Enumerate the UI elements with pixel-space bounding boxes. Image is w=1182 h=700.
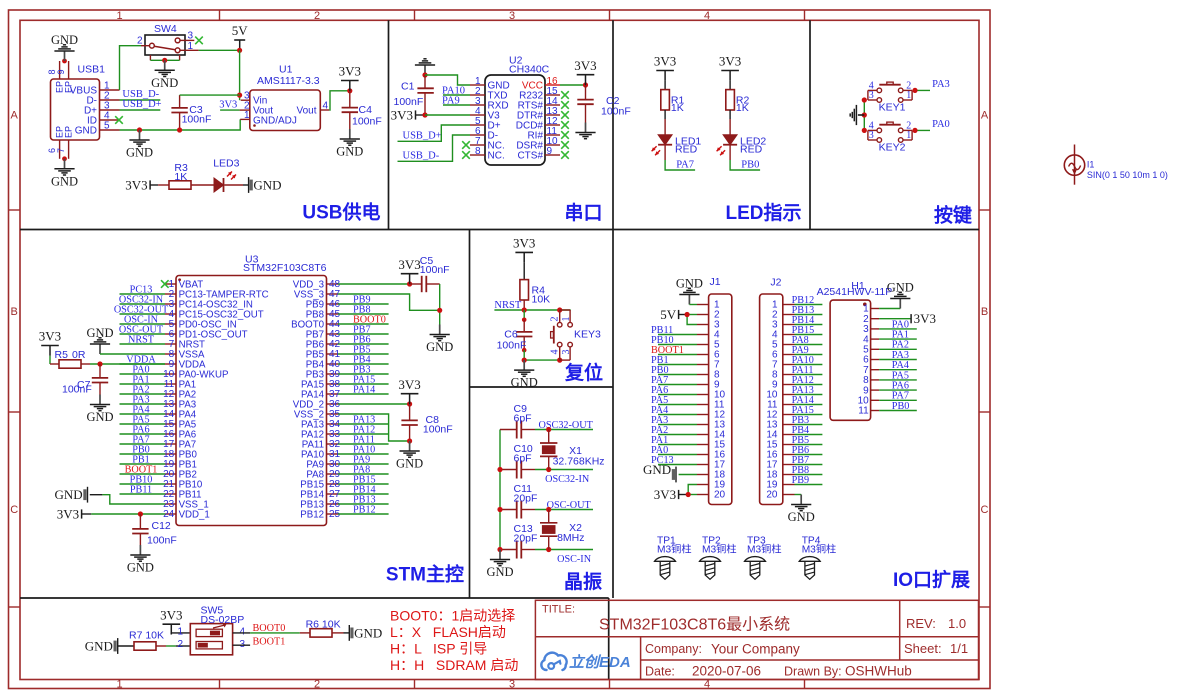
wire H1 pin1 GND	[879, 308, 900, 310]
wire	[120, 413, 166, 415]
wire	[338, 503, 389, 505]
svg-text:6pF: 6pF	[514, 453, 532, 465]
svg-text:SIN(0 1 50 10m 1 0): SIN(0 1 50 10m 1 0)	[1087, 170, 1168, 180]
svg-text:Your Company: Your Company	[711, 642, 800, 657]
svg-text:GND: GND	[676, 276, 703, 290]
net label OSC32-OUT	[539, 420, 594, 431]
ground GND below J2	[788, 495, 815, 525]
svg-text:PB11: PB11	[130, 484, 152, 495]
net label PA15 at J2	[792, 405, 814, 416]
test point TP2 M3铜柱	[700, 536, 737, 580]
svg-text:GND: GND	[51, 33, 78, 47]
wire C1 bottom to U2 V3 pin4	[425, 114, 470, 116]
net label PB9	[353, 294, 371, 305]
wire	[120, 333, 166, 335]
svg-text:5V: 5V	[232, 23, 249, 38]
ground GND below C3	[126, 130, 153, 160]
wire	[795, 304, 823, 306]
net label PB10 at J1	[651, 335, 674, 346]
svg-text:3V3: 3V3	[391, 108, 413, 123]
ground GND above H1	[887, 280, 914, 308]
wire	[120, 463, 166, 465]
svg-text:0R: 0R	[72, 349, 86, 361]
wire crystal row 4	[535, 549, 593, 551]
wire USB_D+ to U2 D+	[398, 125, 471, 141]
net label PB0 at J1	[651, 365, 669, 376]
wire	[338, 383, 389, 385]
svg-text:M3铜柱: M3铜柱	[657, 542, 692, 555]
svg-text:GND: GND	[511, 376, 538, 390]
section label 按键	[934, 204, 972, 227]
net label PA10 at J2	[792, 355, 814, 366]
capacitor C7	[62, 364, 108, 396]
svg-text:1: 1	[116, 10, 122, 22]
frame zone letters right	[981, 110, 989, 517]
net label PB4 at J2	[792, 425, 810, 436]
svg-text:串口: 串口	[564, 202, 602, 224]
svg-text:USB_D+: USB_D+	[122, 99, 161, 110]
title block Date and Drawn By	[645, 664, 912, 679]
svg-text:2: 2	[314, 679, 320, 691]
wire H1 pin2 3V3	[879, 318, 911, 320]
junction	[437, 308, 442, 313]
wire R5 to VDDA	[90, 363, 165, 365]
section label USB供电	[302, 201, 380, 224]
net label VDDA	[126, 354, 156, 365]
net label OSC32-IN	[119, 294, 164, 305]
wire	[120, 313, 166, 315]
svg-text:REV:: REV:	[906, 616, 936, 631]
svg-text:8: 8	[475, 146, 481, 157]
net label PA5 at J1	[651, 395, 668, 406]
junction	[497, 507, 502, 512]
svg-text:J2: J2	[770, 277, 781, 289]
wire J1 pin18 GND	[679, 474, 697, 476]
net label BOOT1	[125, 464, 158, 475]
net label BOOT1 at SW5	[253, 637, 286, 648]
svg-text:4: 4	[323, 100, 329, 111]
wire	[795, 424, 823, 426]
capacitor C11 20pF	[500, 483, 537, 519]
crystal X2 8MHz	[540, 510, 585, 550]
ground GND above C1	[415, 59, 435, 75]
wire	[879, 410, 917, 412]
net label PA9	[353, 454, 370, 465]
junction	[546, 427, 551, 432]
power flag 5V	[232, 23, 249, 50]
push button KEY2	[868, 120, 912, 153]
svg-text:立创EDA: 立创EDA	[569, 653, 631, 671]
svg-text:U1: U1	[279, 64, 293, 76]
svg-text:C12: C12	[152, 520, 171, 532]
junction	[557, 307, 562, 312]
net label PA6 at H1	[892, 381, 909, 392]
svg-text:3V3: 3V3	[398, 377, 420, 392]
svg-text:100nF: 100nF	[62, 384, 92, 396]
wire	[658, 424, 697, 426]
wire	[658, 344, 697, 346]
ground GND below USB1	[51, 159, 78, 189]
svg-text:C: C	[981, 504, 989, 516]
svg-text:USB_D+: USB_D+	[403, 131, 442, 142]
logo 立创EDA	[541, 653, 630, 671]
no-connect X	[195, 37, 203, 45]
svg-text:STM主控: STM主控	[386, 563, 464, 586]
net label PA0 at H1	[892, 319, 909, 330]
wire	[658, 334, 697, 336]
svg-text:GND: GND	[486, 565, 513, 579]
wire	[443, 94, 470, 96]
svg-text:PB0: PB0	[741, 160, 759, 171]
net label PA3	[932, 79, 950, 90]
net label USB_D- at U2	[403, 151, 440, 162]
wire	[658, 434, 697, 436]
svg-text:3: 3	[509, 10, 515, 22]
svg-text:PA7: PA7	[676, 160, 694, 171]
junction	[583, 82, 588, 87]
net label OSC-IN	[124, 314, 159, 325]
svg-text:100nF: 100nF	[420, 264, 450, 276]
svg-text:PA3: PA3	[932, 79, 950, 90]
junction	[237, 48, 242, 53]
wire LED3 to GND	[243, 184, 249, 186]
wire crystal section ground bus	[499, 430, 501, 550]
net label NRST	[494, 300, 521, 311]
wire 3V3 to R3	[150, 184, 158, 186]
svg-text:C1: C1	[401, 81, 415, 93]
svg-text:3V3: 3V3	[574, 58, 596, 73]
resistor R5 0R	[50, 349, 90, 368]
svg-text:100nF: 100nF	[352, 116, 382, 128]
no-connect X	[115, 116, 123, 124]
svg-text:3V3: 3V3	[219, 99, 237, 110]
net label PA0	[132, 364, 149, 375]
net label PB3 at J2	[792, 415, 810, 426]
svg-text:GND: GND	[354, 626, 382, 641]
net label PA7 at J1	[651, 375, 668, 386]
net label PB11	[130, 484, 152, 495]
wire 3V3 to R5	[49, 356, 51, 364]
svg-text:GND: GND	[426, 340, 453, 354]
svg-text:20pF: 20pF	[514, 493, 538, 505]
svg-text:晶振: 晶振	[564, 570, 602, 593]
svg-text:R5: R5	[55, 349, 69, 361]
net label PA3	[132, 394, 149, 405]
title block title STM32F103C8T6最小系统	[599, 616, 790, 634]
svg-text:OSC-OUT: OSC-OUT	[547, 500, 592, 511]
ground GND below C7	[86, 395, 113, 425]
wire U1 pin2 Vout	[220, 109, 240, 111]
wire	[338, 363, 389, 365]
net label PA9 at J2	[792, 345, 809, 356]
wire	[338, 333, 389, 335]
net label PA3 at H1	[892, 350, 909, 361]
wire	[658, 354, 697, 356]
wire	[879, 338, 917, 340]
header J2	[760, 277, 795, 505]
wire VSSA	[100, 353, 165, 355]
junction	[686, 492, 691, 497]
wire R7 to SW5	[156, 645, 190, 647]
wire R1 to LED1	[664, 110, 666, 135]
net label PA10	[442, 85, 465, 96]
capacitor C5	[410, 255, 450, 292]
net label PB6	[353, 334, 371, 345]
svg-text:GND: GND	[887, 280, 914, 294]
svg-text:100nF: 100nF	[423, 424, 453, 436]
net label PB6 at J2	[792, 445, 810, 456]
svg-text:1: 1	[116, 679, 122, 691]
wire U2 VCC to 3V3	[560, 84, 586, 86]
wire KEY2 pin2 to PA0	[913, 129, 930, 131]
junction	[347, 88, 352, 93]
junction	[137, 127, 142, 132]
net label USB_D+	[122, 99, 161, 110]
net label OSC-OUT	[119, 324, 164, 335]
svg-text:PB12: PB12	[353, 504, 376, 515]
svg-text:C: C	[10, 504, 18, 516]
no-connect X	[161, 280, 169, 288]
no-connect X	[462, 151, 470, 159]
crystal X1 32.768KHz	[540, 430, 605, 470]
resistor R7 10K	[129, 630, 164, 651]
svg-text:3: 3	[509, 679, 515, 691]
ground GND below C4	[336, 129, 363, 159]
wire R4 to NRST node	[523, 300, 525, 310]
svg-text:OSHWHub: OSHWHub	[845, 664, 912, 679]
svg-text:M3铜柱: M3铜柱	[747, 542, 782, 555]
net label BOOT0 at SW5	[253, 623, 286, 634]
svg-text:1: 1	[561, 317, 572, 322]
wire	[338, 303, 389, 305]
wire 3V3 to R1	[664, 81, 666, 90]
ground flag GND	[55, 487, 88, 503]
svg-text:GND: GND	[86, 410, 113, 424]
junction	[546, 467, 551, 472]
IC U2 CH340C	[470, 55, 560, 166]
svg-text:A: A	[981, 110, 989, 122]
net label PA3 at J1	[651, 415, 668, 426]
net label PB0	[132, 444, 150, 455]
junction	[237, 93, 242, 98]
no-connect X	[561, 121, 569, 129]
wire NRST node down to C6	[523, 310, 525, 320]
svg-text:20: 20	[766, 490, 778, 501]
net label PA2 at J1	[651, 425, 668, 436]
net label PB0	[741, 160, 759, 171]
current source I1 SIN	[1064, 145, 1168, 185]
net label PB12	[353, 504, 376, 515]
svg-text:6pF: 6pF	[514, 413, 532, 425]
net label BOOT1 at J1	[651, 345, 684, 356]
section label STM主控	[386, 563, 464, 586]
net label PA4 at J1	[651, 405, 668, 416]
wire	[879, 348, 917, 350]
svg-text:1: 1	[244, 110, 250, 121]
wire	[338, 443, 389, 445]
wire SW4 pin2 to USB1 VBUS	[120, 46, 142, 90]
wire 5V to J1 pins 2-3	[679, 314, 688, 316]
voltage regulator U1 AMS1117-3.3	[240, 64, 330, 131]
wire 3V3 to VDD_1	[82, 513, 92, 515]
net label PA14	[353, 384, 375, 395]
ground below C2	[575, 123, 595, 139]
net label PB0 at H1	[892, 401, 910, 412]
wire	[879, 369, 917, 371]
net label PB11 at J1	[651, 325, 673, 336]
svg-text:3V3: 3V3	[719, 54, 741, 69]
wire	[338, 423, 389, 425]
wire NRST	[494, 309, 570, 311]
net label PA6 at J1	[651, 385, 668, 396]
wire	[795, 404, 823, 406]
wire	[338, 513, 389, 515]
wire	[879, 359, 917, 361]
section label 复位	[564, 361, 603, 384]
svg-text:7: 7	[56, 148, 66, 153]
net label PB5 at J2	[792, 435, 810, 446]
wire	[120, 403, 166, 405]
wire	[338, 343, 389, 345]
net label PA2 at H1	[892, 340, 909, 351]
wire 3V3 to SW5 pin1	[171, 633, 190, 635]
wire	[338, 453, 389, 455]
svg-text:1K: 1K	[174, 171, 187, 183]
svg-text:3V3: 3V3	[125, 178, 147, 193]
svg-text:3V3: 3V3	[339, 64, 361, 79]
wire crystal row 1	[535, 429, 593, 431]
net label PB1	[132, 454, 150, 465]
wire	[795, 324, 823, 326]
net label OSC32-IN	[545, 474, 590, 485]
ground GND at U3 VSSA	[86, 326, 113, 354]
test point TP3 M3铜柱	[745, 536, 782, 580]
net label PB10	[130, 474, 153, 485]
wire U1 pin4 to 3V3	[329, 91, 350, 110]
power flag 3V3	[391, 108, 416, 123]
svg-text:USB1: USB1	[78, 64, 106, 76]
svg-text:CTS#: CTS#	[517, 151, 543, 162]
svg-text:Company:: Company:	[645, 642, 702, 656]
power flag 3V3	[125, 178, 150, 193]
net label PB7 at J2	[792, 455, 810, 466]
junction	[546, 547, 551, 552]
svg-text:DS-02BP: DS-02BP	[201, 614, 245, 626]
svg-text:STM32F103C8T6最小系统: STM32F103C8T6最小系统	[599, 616, 790, 634]
wire 3V3 to R4	[523, 263, 525, 279]
svg-text:GND: GND	[85, 639, 113, 654]
wire	[795, 484, 823, 486]
wire	[879, 328, 917, 330]
net label PB12 at J2	[792, 295, 815, 306]
wire	[658, 414, 697, 416]
net label BOOT0	[353, 314, 386, 325]
svg-text:H：L ISP 引导: H：L ISP 引导	[390, 641, 487, 657]
wire	[338, 493, 389, 495]
net label PA5	[132, 414, 149, 425]
svg-text:KEY1: KEY1	[879, 102, 906, 114]
power flag 3V3	[398, 257, 420, 284]
svg-text:3: 3	[188, 31, 194, 42]
net label PA1 at H1	[892, 330, 909, 341]
section label 晶振	[564, 570, 602, 593]
net label PA11	[353, 434, 375, 445]
svg-text:GND: GND	[336, 145, 363, 159]
junction	[422, 72, 427, 77]
wire	[338, 433, 389, 435]
net label PA7 at H1	[892, 391, 909, 402]
svg-text:USB供电: USB供电	[302, 201, 380, 224]
junction	[62, 156, 67, 161]
wire	[879, 399, 917, 401]
wire	[795, 444, 823, 446]
svg-text:11: 11	[858, 406, 869, 417]
junction	[522, 307, 527, 312]
svg-text:NC.: NC.	[488, 151, 505, 162]
svg-text:1K: 1K	[736, 102, 749, 114]
wire 3V3 to J1 pins 19-20	[679, 494, 689, 496]
svg-text:GND: GND	[51, 174, 78, 188]
wire SW5 pin3 BOOT1	[233, 644, 251, 646]
svg-text:GND: GND	[86, 326, 113, 340]
wire	[120, 483, 166, 485]
power flag 3V3	[574, 58, 596, 85]
wire	[795, 414, 823, 416]
no-connect X	[561, 91, 569, 99]
switch SW4	[137, 23, 199, 60]
wire	[658, 464, 697, 466]
LED LED3	[213, 158, 243, 193]
power flag 3V3	[39, 329, 61, 356]
svg-text:LED3: LED3	[213, 158, 239, 170]
net label PA0 at KEY2	[932, 119, 950, 130]
no-connect X	[462, 141, 470, 149]
header H1 A2541HWV-11P	[817, 280, 893, 420]
wire	[338, 353, 389, 355]
svg-text:PB9: PB9	[792, 475, 810, 486]
svg-text:GND: GND	[55, 487, 83, 502]
svg-text:10K: 10K	[532, 294, 551, 306]
wire	[338, 323, 389, 325]
net label PA13 at J2	[792, 385, 814, 396]
ground flag GND	[349, 625, 382, 641]
wire	[338, 393, 389, 395]
svg-text:100nF: 100nF	[601, 106, 631, 118]
wire crystal row 2	[535, 469, 593, 471]
svg-text:KEY3: KEY3	[574, 329, 601, 341]
svg-text:H：H SDRAM 启动: H：H SDRAM 启动	[390, 657, 518, 673]
svg-text:20: 20	[714, 490, 726, 501]
svg-text:NRST: NRST	[128, 334, 155, 345]
svg-text:100nF: 100nF	[147, 535, 177, 547]
svg-text:J1: J1	[710, 276, 721, 288]
svg-text:3: 3	[869, 90, 874, 101]
net label PB13 at J2	[792, 305, 815, 316]
svg-text:BOOT0: BOOT0	[253, 623, 286, 634]
wire	[795, 464, 823, 466]
net label PA6	[132, 424, 149, 435]
wire LED1 to PA7	[665, 160, 695, 170]
boot mode table text red	[390, 608, 518, 674]
net label PB1 at J1	[651, 355, 669, 366]
svg-text:GND: GND	[126, 146, 153, 160]
wire VDD_2 to 3V3	[338, 403, 410, 405]
wire reset bottom rail	[524, 359, 560, 361]
svg-text:PB0: PB0	[892, 401, 910, 412]
ground GND above J1	[676, 276, 703, 304]
wire	[120, 453, 166, 455]
LED LED1 RED	[652, 135, 702, 160]
